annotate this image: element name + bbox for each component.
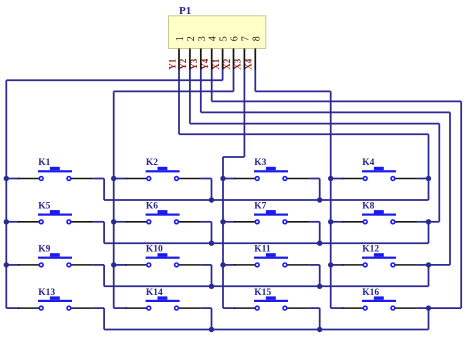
svg-text:7: 7 [240,36,251,41]
junction: column 2 rail / K2 left [111,176,116,181]
wire net Y4: K14 right terminal jog [201,307,212,309]
junction: column 3 rail / K3 left [220,176,225,181]
wire net X2: column 2 rail vertical [113,91,115,308]
junction: column 4 rail / K8 left [328,219,333,224]
wire net X4: stub to K8 left terminal [331,221,344,223]
wire net X4: stub to K12 left terminal [331,264,344,266]
pin 4 stub [211,49,213,70]
junction: right vertical / K4 right terminal [426,176,431,181]
svg-text:K6: K6 [146,202,158,212]
push button K15 [234,288,309,310]
svg-text:3: 3 [197,36,208,41]
wire net Y4: K16 right terminal link [417,307,428,309]
connector P1 body [169,16,266,49]
wire net X2: pin 6 vertical drop [233,70,235,92]
junction: column 4 rail / K12 left [328,262,333,267]
svg-text:X2: X2 [222,58,232,69]
svg-text:K16: K16 [362,288,379,298]
wire net Y4: K13 right terminal jog [93,307,104,309]
push button K1 [18,158,93,180]
wire net X3: stub to K3 left terminal [223,178,235,180]
pin 6 stub [233,49,235,70]
wire net X4: stub to K4 left terminal [331,178,344,180]
svg-text:4: 4 [208,36,219,41]
wire net X1: stub to K5 left terminal [6,221,19,223]
junction: right vertical / K12 right terminal [426,262,431,267]
junction: column 4 rail / K4 left [328,176,333,181]
wire net Y4: horizontal into junction at row 4 [429,307,462,309]
push button K5 [18,202,93,224]
wire net Y2: right edge vertical down [438,124,440,222]
push button K11 [234,245,309,267]
junction: row 4 rail / K14 jog [209,327,214,332]
wire net X4: horizontal to column 4 rail [255,90,330,92]
wire net Y4: pin 4 vertical drop [211,70,213,102]
wire net Y2: drop to row rail [428,222,430,243]
wire net X3: pin 7 vertical drop [243,70,245,158]
wire net Y2: horizontal into junction at row 2 [429,221,440,223]
wire net Y1: horizontal to right edge [179,133,429,135]
push button K13 [18,288,93,310]
junction: column 3 rail / K7 left [220,219,225,224]
svg-text:Y1: Y1 [167,58,177,69]
junction: row 2 rail / K6 jog [209,241,214,246]
push button K14 [126,288,201,310]
wire net Y3: horizontal to right edge [201,111,450,113]
wire net X1: column 1 rail vertical [5,80,7,308]
pin 7 stub [243,49,245,70]
junction: column 3 rail / K11 left [220,262,225,267]
push button K6 [126,202,201,224]
junction: row 2 rail / K7 jog [317,241,322,246]
wire net X4: stub to K16 left terminal [331,307,344,309]
wire net Y2: horizontal to right edge [190,123,439,125]
wire net X3: horizontal to column 3 rail [223,156,244,158]
junction: row 4 rail / K15 jog [317,327,322,332]
wire net Y2: pin 2 vertical drop [189,70,191,124]
pin 5 stub [222,49,224,70]
push button K16 [342,288,417,310]
pin 1 stub [178,49,180,70]
svg-text:K7: K7 [254,202,266,212]
svg-text:K13: K13 [38,288,55,298]
svg-text:K8: K8 [362,202,374,212]
push button K3 [234,158,309,180]
svg-text:5: 5 [219,36,230,41]
junction: column 1 rail / K5 left [4,219,9,224]
push button K4 [342,158,417,180]
svg-text:X4: X4 [244,58,254,69]
wire net X2: stub to K2 left terminal [114,178,127,180]
wire net Y4: K15 right terminal jog [309,307,320,309]
svg-text:K1: K1 [38,158,50,168]
push button K7 [234,202,309,224]
svg-text:K2: K2 [146,158,158,168]
pin 2 stub [189,49,191,70]
push button K12 [342,245,417,267]
svg-text:Y2: Y2 [178,58,188,69]
wire net Y2: K5 right terminal jog [93,221,104,223]
svg-text:X1: X1 [211,58,221,69]
svg-text:8: 8 [251,36,262,41]
wire net Y3: K12 right terminal link [417,264,428,266]
junction: right vertical / K16 right terminal [426,305,431,310]
wire net X1: stub to K13 left terminal [6,307,19,309]
junction: row 3 rail / K11 jog [317,284,322,289]
junction: right vertical / K8 right terminal [426,219,431,224]
push button K9 [18,245,93,267]
wire net Y1: K1 right terminal jog [93,178,104,180]
junction: column 2 rail / K6 left [111,219,116,224]
wire net Y3: K10 right terminal jog [201,264,212,266]
push button K10 [126,245,201,267]
push button K8 [342,202,417,224]
wire net Y1: K3 right terminal jog [309,178,320,180]
svg-text:2: 2 [186,36,197,41]
svg-text:K14: K14 [146,288,163,298]
junction: column 2 rail / K10 left [111,262,116,267]
wire net X1: pin 5 vertical drop [222,70,224,81]
wire net Y2: K6 right terminal jog [201,221,212,223]
wire net Y2: K7 right terminal jog [309,221,320,223]
wire net Y3: row 3 rail [104,285,428,287]
wire net Y1: drop to row rail [428,179,430,201]
wire net Y1: K4 right terminal link [417,178,428,180]
svg-text:K4: K4 [362,158,374,168]
svg-text:K10: K10 [146,245,163,255]
svg-text:6: 6 [230,36,241,41]
svg-text:K11: K11 [254,245,271,255]
wire net Y3: K9 right terminal jog [93,264,104,266]
wire net X3: stub to K7 left terminal [223,221,235,223]
wire net Y1: row 1 rail [104,199,428,201]
svg-text:Y4: Y4 [200,58,210,69]
wire net X4: column 4 rail vertical [330,91,332,308]
wire net Y4: drop to row rail [428,308,430,329]
wire net Y2: K8 right terminal link [417,221,428,223]
wire net X1: horizontal to column 1 rail [6,79,222,81]
wire net Y3: right edge vertical down [449,112,451,265]
svg-text:P1: P1 [179,5,191,17]
junction: row 1 rail / K2 jog [209,197,214,202]
svg-text:K9: K9 [38,245,50,255]
wire net Y3: pin 3 vertical drop [200,70,202,113]
svg-text:1: 1 [175,36,186,41]
svg-text:K5: K5 [38,202,50,212]
junction: row 3 rail / K10 jog [209,284,214,289]
wire net Y2: row 2 rail [104,242,428,244]
wire net Y3: horizontal into junction at row 3 [429,264,451,266]
wire net X2: stub to K14 left terminal [114,307,127,309]
svg-text:X3: X3 [233,58,243,69]
wire net Y4: row 4 rail [104,329,428,331]
svg-text:K3: K3 [254,158,266,168]
wire net Y4: right edge vertical down [460,101,462,308]
wire net X3: column 3 rail vertical [222,157,224,308]
svg-text:K12: K12 [362,245,379,255]
svg-text:Y3: Y3 [189,58,199,69]
wire net X1: stub to K1 left terminal [6,178,19,180]
junction: column 1 rail / K1 left [4,176,9,181]
pin 3 stub [200,49,202,70]
push button K2 [126,158,201,180]
wire net X2: horizontal to column 2 rail [114,90,234,92]
wire net X3: stub to K15 left terminal [223,307,235,309]
wire net X4: pin 8 vertical drop [254,70,256,92]
wire net Y3: K11 right terminal jog [309,264,320,266]
wire net X3: stub to K11 left terminal [223,264,235,266]
wire net Y1: K2 right terminal jog [201,178,212,180]
svg-text:K15: K15 [254,288,271,298]
wire net Y3: drop to row rail [428,265,430,286]
junction: column 1 rail / K9 left [4,262,9,267]
wire net X2: stub to K10 left terminal [114,264,127,266]
wire net X2: stub to K6 left terminal [114,221,127,223]
wire net Y4: horizontal to right edge [212,100,462,102]
wire net X1: stub to K9 left terminal [6,264,19,266]
wire net Y1: right edge vertical down [428,134,430,178]
junction: row 1 rail / K3 jog [317,197,322,202]
wire net Y1: pin 1 vertical drop [178,70,180,135]
pin 8 stub [254,49,256,70]
